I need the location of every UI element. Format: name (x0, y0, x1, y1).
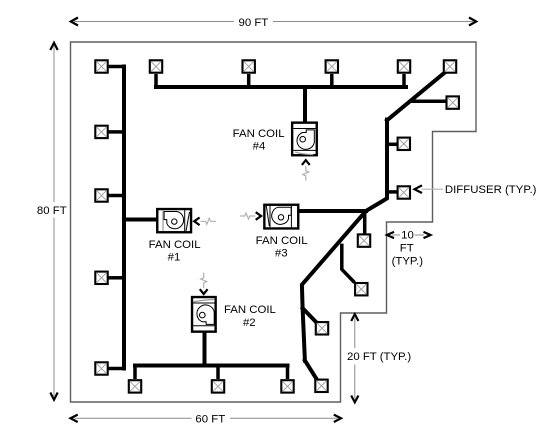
wire riser top diffuser 1 (154, 74, 158, 87)
wire riser top diffuser 4 (402, 74, 406, 87)
dimension 60 FT bottom (71, 413, 342, 425)
svg-text:(TYP.): (TYP.) (392, 256, 424, 268)
diffuser mid 1 (358, 234, 370, 246)
diffuser mid 4 (315, 380, 327, 392)
wire branch east trunk diffuser 2 (386, 190, 397, 194)
svg-text:FAN COIL: FAN COIL (224, 304, 276, 316)
svg-text:DIFFUSER (TYP.): DIFFUSER (TYP.) (445, 184, 537, 196)
wire FC4 supply riser (303, 87, 307, 122)
diffuser mid 3 (316, 322, 328, 334)
diffuser left column 3 (95, 189, 107, 201)
wire diagonal to corner diffuser (387, 72, 446, 121)
diffuser east 2 (398, 138, 410, 150)
thermostat arrow FC2 (200, 273, 208, 294)
wire bottom duct horizontal (135, 364, 288, 368)
wire FC2 supply down (203, 330, 207, 366)
dimension 90 FT top (71, 17, 476, 29)
fan coil unit FC2 (192, 297, 216, 332)
building boundary (71, 42, 477, 402)
svg-text:FAN COIL: FAN COIL (233, 128, 285, 140)
diffuser bottom row 1 (129, 380, 141, 392)
thermostat arrow FC4 (302, 160, 310, 180)
wire branch to left diffuser 5 (108, 367, 124, 371)
wire FC3 supply to east trunk (297, 209, 366, 213)
wire branch to left diffuser 3 (108, 194, 124, 198)
diffuser top right corner (444, 60, 456, 72)
svg-text:10: 10 (401, 230, 414, 242)
svg-text:80 FT: 80 FT (37, 205, 67, 217)
wire riser top diffuser 3 (330, 74, 334, 87)
fan coil unit FC3 (264, 205, 298, 229)
wire drop bottom diffuser 3 (286, 366, 290, 380)
svg-text:90 FT: 90 FT (239, 17, 269, 29)
wire diagonal up to east trunk (365, 120, 387, 212)
diffuser bottom row 3 (281, 380, 293, 392)
wire branch to left diffuser 4 (108, 276, 124, 280)
wire top duct horizontal (156, 85, 406, 89)
label FAN COIL #3 (256, 235, 308, 260)
wire drop bottom diffuser 1 (133, 366, 137, 380)
diffuser mid 2 (355, 283, 367, 295)
wire left trunk vertical (122, 67, 126, 369)
svg-text:FT: FT (400, 243, 414, 255)
diffuser east 1 (447, 96, 459, 108)
diffuser left column 1 (95, 60, 107, 72)
diffuser bottom row 2 (212, 380, 224, 392)
svg-text:FAN COIL: FAN COIL (149, 239, 201, 251)
wire branch mid diagonal to diffuser (342, 244, 355, 283)
label FAN COIL #1 (149, 239, 201, 264)
wire branch to left diffuser 2 (108, 130, 124, 134)
wire branch to left diffuser 1 (108, 65, 124, 69)
wire drop to diffuser below FC3 duct (363, 212, 367, 234)
svg-text:60 FT: 60 FT (195, 413, 225, 425)
label FAN COIL #4 (233, 128, 285, 152)
diffuser left column 5 (95, 362, 107, 374)
label FAN COIL #2 (224, 304, 276, 329)
wire long diagonal southwest (302, 212, 365, 361)
fan coil unit FC1 (157, 209, 191, 232)
label DIFFUSER (TYP.) with leader (415, 184, 537, 196)
diffuser top row 2 (243, 60, 255, 72)
svg-text:20 FT (TYP.): 20 FT (TYP.) (347, 351, 411, 363)
svg-text:#4: #4 (253, 140, 266, 152)
wire duct FC1 supply to trunk (124, 218, 157, 222)
svg-text:#2: #2 (243, 317, 256, 329)
dimension 20 FT (TYP.) (347, 314, 411, 402)
diffuser east 3 (398, 186, 410, 198)
svg-text:FAN COIL: FAN COIL (256, 235, 308, 247)
thermostat arrow FC3 (240, 212, 261, 220)
diffuser left column 2 (95, 126, 107, 138)
wire diagonal to bottom diffuser 322,386 (305, 361, 316, 379)
diffuser top row 4 (398, 60, 410, 72)
wire branch to diffuser right of diagonal (410, 100, 446, 104)
wire branch diagonal to diffuser at 322,328 (303, 308, 316, 321)
diffuser top row 3 (326, 60, 338, 72)
dimension 10 FT (TYP.) (387, 230, 431, 268)
wire riser top diffuser 2 (247, 74, 251, 87)
fan coil unit FC4 (292, 123, 317, 156)
wire branch east trunk diffuser 1 (386, 143, 397, 147)
diffuser top row 1 (150, 60, 162, 72)
svg-text:#1: #1 (168, 252, 181, 264)
svg-text:#3: #3 (275, 248, 288, 260)
wire drop bottom diffuser 2 (216, 366, 220, 380)
diffuser left column 4 (95, 272, 107, 284)
thermostat arrow FC1 (194, 218, 216, 226)
dimension 80 FT left (37, 43, 67, 400)
